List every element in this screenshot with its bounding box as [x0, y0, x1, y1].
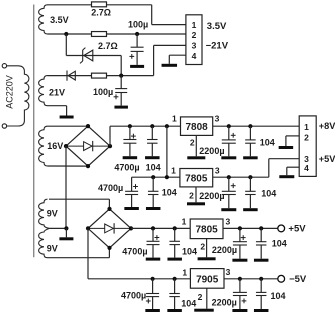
- svg-text:7905: 7905: [196, 274, 219, 285]
- svg-text:2200µ: 2200µ: [212, 245, 237, 255]
- svg-text:104: 104: [162, 187, 177, 197]
- svg-text:3: 3: [192, 40, 197, 50]
- svg-text:+5V: +5V: [319, 154, 335, 164]
- svg-text:4700µ: 4700µ: [121, 291, 146, 301]
- svg-text:4700µ: 4700µ: [114, 163, 139, 173]
- svg-text:1: 1: [172, 113, 177, 123]
- svg-text:104: 104: [146, 163, 161, 173]
- svg-text:4: 4: [304, 163, 309, 173]
- svg-text:1: 1: [304, 122, 309, 132]
- svg-text:2: 2: [304, 132, 309, 142]
- svg-text:2: 2: [198, 292, 203, 302]
- svg-text:1: 1: [171, 165, 176, 175]
- svg-text:16V: 16V: [47, 141, 63, 151]
- svg-text:+8V: +8V: [319, 121, 335, 131]
- svg-text:104: 104: [182, 246, 197, 256]
- svg-text:−5V: −5V: [289, 274, 307, 285]
- svg-text:4700µ: 4700µ: [98, 183, 123, 193]
- svg-text:3: 3: [226, 216, 231, 226]
- svg-text:3: 3: [226, 267, 231, 277]
- svg-text:9V: 9V: [47, 243, 58, 253]
- svg-text:7808: 7808: [185, 122, 208, 133]
- svg-text:2200µ: 2200µ: [212, 297, 237, 307]
- svg-text:7805: 7805: [195, 225, 218, 236]
- svg-text:2.7Ω: 2.7Ω: [98, 41, 118, 51]
- svg-text:104: 104: [271, 291, 286, 301]
- svg-text:AC220V: AC220V: [5, 75, 15, 109]
- svg-text:21V: 21V: [49, 87, 65, 97]
- svg-text:+5V: +5V: [288, 224, 306, 235]
- svg-text:2200µ: 2200µ: [199, 146, 224, 156]
- svg-text:2: 2: [190, 137, 195, 147]
- svg-text:3.5V: 3.5V: [207, 21, 227, 32]
- svg-text:104: 104: [272, 239, 287, 249]
- svg-text:2200µ: 2200µ: [199, 191, 224, 201]
- svg-text:100µ: 100µ: [128, 20, 148, 30]
- svg-text:2.7Ω: 2.7Ω: [91, 8, 111, 18]
- svg-text:1: 1: [192, 20, 197, 30]
- svg-text:3.5V: 3.5V: [50, 15, 69, 25]
- svg-text:1: 1: [182, 217, 187, 227]
- svg-text:104: 104: [181, 299, 196, 309]
- svg-text:2: 2: [189, 190, 194, 200]
- svg-text:1: 1: [182, 268, 187, 278]
- svg-text:−21V: −21V: [206, 41, 229, 52]
- svg-text:104: 104: [260, 137, 275, 147]
- svg-text:100µ: 100µ: [93, 87, 113, 97]
- svg-text:3: 3: [215, 113, 220, 123]
- svg-text:9V: 9V: [47, 209, 58, 219]
- svg-text:2: 2: [200, 241, 205, 251]
- svg-text:4: 4: [192, 51, 197, 61]
- svg-text:4700µ: 4700µ: [122, 246, 147, 256]
- svg-text:2: 2: [192, 30, 197, 40]
- svg-text:104: 104: [261, 188, 276, 198]
- svg-text:7805: 7805: [185, 173, 208, 184]
- svg-text:3: 3: [215, 165, 220, 175]
